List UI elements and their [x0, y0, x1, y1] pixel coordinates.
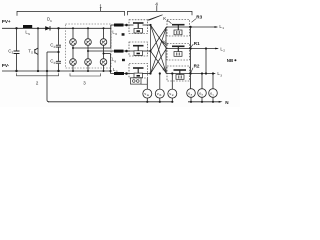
leg C wire	[103, 28, 105, 71]
node phase a	[72, 47, 74, 49]
node leg A top	[72, 27, 74, 29]
leader R1	[191, 44, 193, 47]
svg-text:b: b	[167, 42, 169, 46]
node Ts bottom	[37, 70, 39, 72]
label Kb	[163, 39, 168, 45]
wire Cd column	[58, 28, 60, 71]
label Lg2	[112, 57, 117, 63]
svg-text:PV+: PV+	[2, 19, 11, 24]
wire top rail	[2, 27, 111, 29]
leg A wire	[72, 28, 74, 71]
source vc (circled)	[168, 89, 177, 98]
breaker QF3 coil box	[134, 73, 143, 78]
node grid b	[201, 101, 203, 103]
arrow Ka	[169, 21, 172, 24]
label Cs	[8, 48, 13, 54]
wire bypass vertical v2	[205, 49, 207, 74]
breaker module QF1 dashed box	[129, 20, 148, 34]
capacitor Cd upper	[56, 45, 61, 47]
transistor Ts	[35, 48, 38, 55]
breaker QF3 contact bar	[133, 67, 144, 69]
node phase b	[87, 50, 89, 52]
source va (circled)	[143, 89, 152, 98]
wire Kb through	[167, 48, 191, 50]
wire phase c dropper	[110, 54, 112, 74]
source ea (circled)	[187, 89, 196, 98]
node leg C top	[103, 27, 105, 29]
wire mesh diagonal b-a	[151, 27, 167, 51]
label Db	[47, 17, 52, 23]
node load c	[171, 101, 173, 103]
node NB dot	[234, 59, 236, 61]
bracket 1 (overbracket, DC conversion section)	[17, 11, 125, 15]
label Ts	[28, 48, 33, 54]
wire mesh diagonal c-b	[151, 49, 167, 74]
node out 3	[189, 72, 191, 74]
label Ls	[25, 30, 30, 36]
label Cd upper	[50, 43, 55, 49]
breaker QF1 contact bar	[133, 22, 144, 24]
node rail end	[109, 70, 111, 72]
source vb (circled)	[155, 89, 164, 98]
node leg B top	[87, 27, 89, 29]
wire drop to source b	[201, 74, 203, 89]
wire mesh diagonal a-b	[151, 25, 167, 49]
wire drop to source c	[212, 74, 214, 89]
node hanger b	[201, 72, 203, 74]
aux box under module 3	[131, 78, 142, 84]
wire right neutral bus	[188, 101, 219, 103]
node v2 bottom	[205, 72, 207, 74]
mark near Lg2	[122, 59, 125, 61]
svg-text:R3: R3	[196, 14, 202, 19]
label Lg3	[113, 67, 118, 73]
brace 2 (under boost)	[17, 73, 59, 76]
node load b	[159, 101, 161, 103]
label L2	[220, 46, 225, 52]
wire mesh right vertical	[165, 27, 167, 74]
svg-text:d: d	[54, 61, 56, 65]
wire load drops	[147, 74, 172, 90]
leg B wire	[87, 28, 89, 71]
wire phase a tap	[73, 47, 111, 49]
wire mesh diagonal a-c	[151, 25, 167, 74]
wire mesh diagonal c-a	[151, 27, 167, 74]
wire phase c to module 3	[111, 73, 134, 75]
contactor Ka dashed box	[167, 20, 190, 37]
wire source tails left	[147, 98, 172, 102]
leader R3	[192, 19, 197, 23]
node leg C bottom	[103, 70, 105, 72]
wire phase b tap	[88, 50, 134, 52]
svg-text:a: a	[167, 18, 169, 22]
contactor Kb contact bar	[172, 45, 185, 47]
wire phase c tap	[104, 53, 111, 55]
wire Ts column	[37, 28, 39, 71]
brace 3 (under inverter)	[70, 73, 101, 76]
inductor Lg2	[114, 50, 124, 53]
capacitor Cs	[14, 51, 20, 54]
bracket 4 (overbracket, right section)	[128, 11, 193, 15]
contactor Ka coil box	[174, 30, 182, 35]
inductor Lg3	[114, 72, 124, 75]
wire neutral return drop	[47, 52, 49, 102]
breaker module QF2 dashed box	[129, 42, 148, 56]
wire module3 through	[143, 73, 151, 75]
node Cd mid	[57, 51, 59, 53]
node leg A bottom	[72, 70, 74, 72]
node v2 top	[205, 47, 207, 49]
breaker QF1 coil box	[134, 28, 143, 33]
node Cd bottom	[57, 70, 59, 72]
node Cd top	[57, 27, 59, 29]
wire line L3	[190, 73, 215, 75]
breaker QF2 coil box	[134, 51, 143, 56]
wire bypass vertical v1	[190, 27, 192, 89]
node module1 input	[125, 24, 128, 27]
contactor Kb coil box	[174, 52, 182, 57]
device S2 (circled)	[85, 39, 92, 46]
node grid a	[190, 101, 192, 103]
node mesh left 2	[149, 50, 151, 52]
svg-text:4: 4	[155, 1, 158, 7]
svg-text:1: 1	[99, 4, 102, 10]
node out 1	[189, 26, 191, 28]
label Lg1	[112, 30, 117, 36]
wire module1 through	[143, 24, 151, 26]
contactor Kc contact bar	[174, 69, 187, 71]
label Cd lower	[50, 59, 55, 65]
node hanger c	[212, 72, 214, 74]
svg-text:NB: NB	[227, 58, 233, 63]
inductor Ls	[23, 25, 32, 28]
mark near Lg1	[122, 33, 125, 36]
wire left neutral bus	[48, 101, 173, 103]
node load a	[146, 101, 148, 103]
wire Cs column	[16, 28, 18, 71]
label L1	[219, 24, 224, 30]
wire grid source tails	[191, 97, 213, 102]
device S5 (circled)	[85, 59, 92, 66]
svg-text:R2: R2	[194, 63, 200, 68]
breaker QF2 contact bar	[133, 45, 144, 47]
diode Db	[45, 26, 50, 30]
node out 2	[189, 47, 191, 49]
arrow N	[219, 101, 223, 103]
svg-text:2: 2	[223, 49, 225, 53]
wire bottom rail	[2, 70, 111, 72]
node leg B bottom	[87, 70, 89, 72]
svg-text:1: 1	[222, 26, 224, 30]
wire module2 through	[143, 50, 151, 52]
capacitor Cd lower	[56, 61, 61, 63]
wire Kc through	[167, 73, 191, 75]
device S3 (circled)	[100, 39, 107, 46]
wire phase a to module 1	[111, 24, 134, 26]
contactor Ka contact bar	[172, 24, 185, 26]
node phase c	[103, 53, 105, 55]
arrow Kb	[162, 41, 166, 45]
wire Ka through	[167, 26, 191, 28]
node grid c	[212, 101, 214, 103]
node Cs bottom	[15, 70, 17, 72]
device S1 (circled)	[70, 39, 77, 46]
leader R2	[191, 68, 193, 73]
svg-text:R1: R1	[194, 41, 200, 46]
arrow L3	[212, 73, 216, 75]
svg-text:PV-: PV-	[2, 63, 10, 68]
svg-text:d: d	[54, 45, 56, 49]
device S4 (circled)	[70, 59, 77, 66]
label L3	[217, 71, 222, 77]
label Kc	[163, 67, 168, 73]
leader Ka to module1 contact	[147, 15, 162, 20]
inductor Lg1	[114, 24, 124, 27]
source eb (circled)	[198, 89, 207, 98]
contactor Kc coil box	[176, 75, 184, 80]
wire neutral link from Cd midpoint	[47, 51, 59, 53]
label 4 tick	[156, 5, 158, 11]
wire mesh diagonal b-c	[151, 51, 167, 74]
breaker module QF3 dashed box	[129, 64, 148, 79]
arrow L1	[215, 26, 219, 28]
node module2 input	[125, 50, 128, 53]
node mesh left 3	[149, 72, 151, 74]
wire line L1	[191, 26, 218, 28]
arrow L2	[215, 48, 219, 50]
node mesh left 1	[149, 24, 151, 26]
source ec (circled)	[209, 89, 218, 98]
node module3 input	[125, 72, 128, 75]
label 1 tick	[100, 7, 102, 11]
wire mesh left vertical	[150, 25, 152, 74]
contactor Kb dashed box	[167, 44, 190, 61]
node Ts top	[37, 27, 39, 29]
svg-text:3: 3	[220, 73, 222, 77]
inverter dashed box	[66, 24, 112, 68]
device S6 (circled)	[100, 59, 107, 66]
label Ka	[163, 16, 168, 22]
wire phase a riser	[110, 25, 112, 48]
contactor Kc dashed box	[167, 66, 190, 81]
node Cs top	[15, 27, 17, 29]
node neutral return	[46, 70, 48, 72]
wire line L2	[190, 48, 218, 50]
